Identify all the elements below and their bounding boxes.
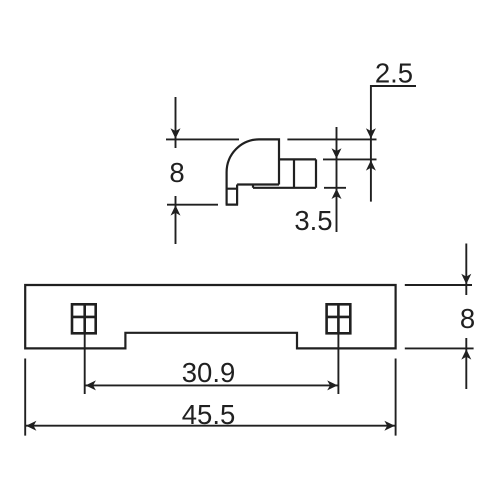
- cap body outline (quarter-round profile): [227, 139, 279, 204]
- plate outline with bottom notch: [25, 285, 395, 348]
- dimension 2.5 top extension line: [287, 138, 376, 140]
- dimension 30.9 left arrowhead: [86, 380, 96, 390]
- dimension 3.5 upper arrowhead: [332, 148, 342, 158]
- dimension 8 (right) upper dimension line: [465, 244, 467, 296]
- dimension 45.5 left arrowhead: [26, 421, 36, 431]
- dimension 8 (left) lower arrowhead: [171, 205, 181, 215]
- dimension 8 (right) lower arrowhead: [461, 349, 471, 359]
- dimension 3.5 dimension line: [336, 127, 338, 232]
- dimension 2.5 lower arrowhead: [366, 160, 376, 170]
- dimension 45.5 right arrowhead: [384, 421, 394, 431]
- dimension 3.5 lower arrowhead: [332, 189, 342, 199]
- clip leg of cap: [253, 159, 316, 187]
- cap body bottom edge: [237, 183, 279, 185]
- svg-text:2.5: 2.5: [375, 58, 413, 89]
- dimension 45.5 right extension line: [395, 359, 397, 436]
- dimension 2.5 leader line: [371, 86, 416, 202]
- dimension 8 (right) lower dimension line: [465, 338, 467, 389]
- dimension 8 (left) extension line bottom: [167, 204, 218, 206]
- svg-text:45.5: 45.5: [182, 399, 236, 430]
- dimension 8 (right) bottom extension line: [405, 347, 474, 349]
- dimension 45.5 dimension line: [25, 425, 395, 427]
- dimension 8 (right) upper arrowhead: [461, 274, 471, 284]
- dimension 8 (left, cap height) extension line top: [166, 138, 239, 140]
- dimension 30.9 right extension line: [337, 334, 339, 394]
- dimension 2.5 upper arrowhead: [366, 128, 376, 138]
- svg-text:8: 8: [169, 157, 184, 188]
- right screw head: [327, 304, 351, 333]
- svg-text:3.5: 3.5: [294, 205, 332, 236]
- dimension 8 (left) upper dimension line: [175, 97, 177, 148]
- dimension 8 (right) top extension line: [405, 284, 472, 286]
- svg-text:8: 8: [460, 303, 475, 334]
- dimension 8 (left) lower dimension line: [175, 196, 177, 244]
- svg-text:30.9: 30.9: [182, 357, 236, 388]
- dimension 45.5 left extension line: [24, 359, 26, 436]
- dimension 3.5 lower extension line: [324, 187, 346, 189]
- dimension 8 (left) upper arrowhead: [171, 128, 181, 138]
- dimension 2.5 / 3.5 shared extension line (clip top): [323, 158, 377, 160]
- foot tab of cap: [226, 185, 239, 205]
- left screw head: [72, 304, 96, 333]
- dimension 30.9 right arrowhead: [327, 380, 337, 390]
- dimension 30.9 left extension line: [84, 334, 86, 394]
- dimension 30.9 dimension line: [85, 384, 339, 386]
